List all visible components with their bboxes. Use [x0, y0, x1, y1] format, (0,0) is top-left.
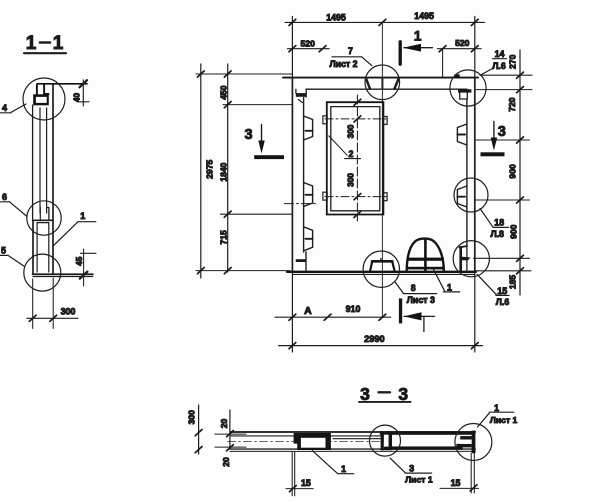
svg-text:300: 300 [346, 124, 356, 138]
svg-text:300: 300 [187, 410, 197, 425]
svg-text:3: 3 [498, 124, 506, 140]
svg-text:5: 5 [1, 246, 6, 256]
svg-text:3: 3 [360, 384, 370, 404]
svg-text:Л.6: Л.6 [492, 61, 506, 71]
svg-text:900: 900 [507, 164, 517, 179]
svg-text:1495: 1495 [414, 11, 434, 21]
svg-text:185: 185 [507, 275, 517, 290]
svg-text:3: 3 [245, 127, 253, 143]
svg-text:20: 20 [221, 457, 231, 467]
svg-text:300: 300 [61, 307, 76, 317]
svg-text:2975: 2975 [205, 160, 215, 179]
svg-text:520: 520 [455, 38, 470, 48]
svg-text:1495: 1495 [326, 12, 346, 22]
svg-text:1: 1 [341, 464, 346, 474]
svg-text:300: 300 [346, 173, 356, 187]
svg-text:3: 3 [409, 464, 414, 474]
svg-text:15: 15 [497, 286, 507, 296]
svg-text:14: 14 [495, 49, 505, 59]
svg-text:720: 720 [507, 97, 517, 112]
svg-text:2: 2 [349, 149, 354, 159]
svg-text:450: 450 [219, 85, 229, 100]
svg-text:45: 45 [75, 256, 84, 266]
svg-text:1: 1 [414, 29, 422, 44]
svg-text:1: 1 [53, 33, 64, 54]
svg-text:40: 40 [73, 93, 82, 103]
svg-text:910: 910 [346, 304, 361, 314]
svg-text:Лист 1: Лист 1 [405, 475, 433, 485]
svg-text:270: 270 [508, 54, 518, 69]
svg-text:Лист 2: Лист 2 [329, 59, 357, 69]
svg-text:1: 1 [447, 283, 452, 293]
svg-text:20: 20 [219, 419, 229, 429]
svg-text:A: A [304, 305, 312, 317]
svg-text:4: 4 [2, 103, 7, 113]
svg-text:15: 15 [301, 478, 311, 488]
svg-text:520: 520 [301, 38, 316, 48]
svg-text:Лист 1: Лист 1 [490, 415, 518, 425]
svg-text:715: 715 [219, 230, 229, 245]
svg-text:8: 8 [411, 283, 416, 293]
svg-text:Лист 3: Лист 3 [407, 295, 435, 305]
svg-text:1: 1 [26, 33, 37, 54]
svg-text:15: 15 [451, 478, 461, 488]
svg-text:Л.6: Л.6 [496, 297, 510, 307]
svg-text:900: 900 [509, 224, 519, 239]
svg-text:7: 7 [348, 46, 353, 56]
svg-text:Л.8: Л.8 [490, 229, 504, 239]
svg-text:2990: 2990 [364, 334, 384, 344]
svg-text:3: 3 [398, 384, 408, 404]
svg-text:6: 6 [2, 192, 7, 202]
svg-text:1840: 1840 [219, 162, 229, 181]
svg-text:18: 18 [494, 217, 504, 227]
svg-text:1: 1 [80, 211, 85, 221]
